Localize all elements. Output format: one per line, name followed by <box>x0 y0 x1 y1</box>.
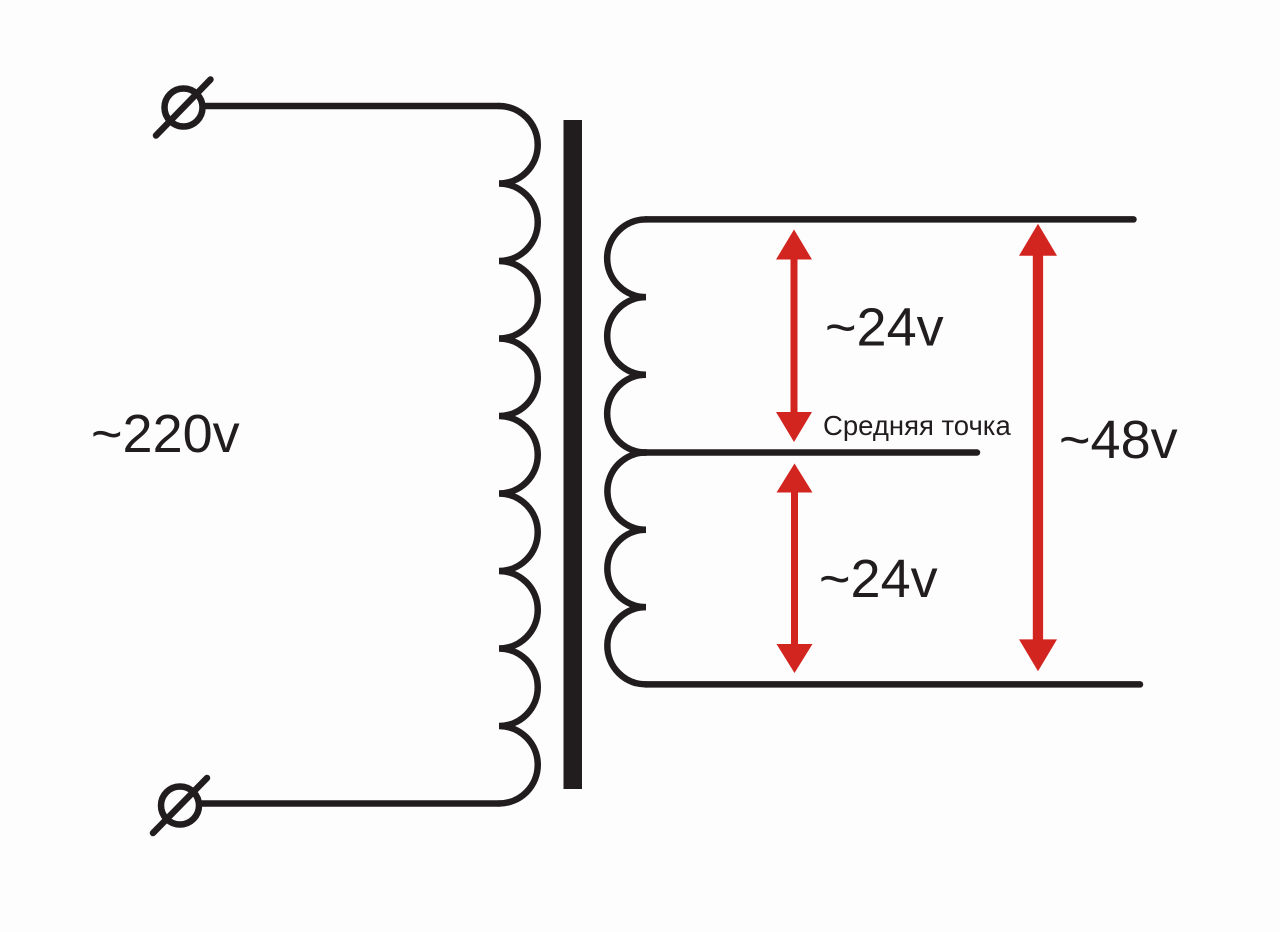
terminal X2 (primary bottom input) <box>153 778 207 833</box>
secondary winding L2 (upper half) <box>607 219 646 452</box>
dimension arrow ~24v lower <box>777 464 813 674</box>
wire primary top <box>205 103 499 110</box>
wire center tap <box>636 449 977 456</box>
svg-text:~24v: ~24v <box>819 549 938 609</box>
svg-text:~24v: ~24v <box>825 298 944 358</box>
secondary winding L3 (lower half) <box>607 453 646 685</box>
wire secondary bottom <box>646 681 1140 688</box>
wire primary bottom <box>202 800 499 807</box>
svg-text:~48v: ~48v <box>1059 410 1178 470</box>
primary winding L1 <box>499 106 538 804</box>
dimension arrow ~24v upper <box>776 230 812 443</box>
wire secondary top <box>646 216 1134 223</box>
transformer core <box>564 120 583 789</box>
terminal X1 (primary top input) <box>156 80 211 136</box>
dimension arrow ~48v <box>1019 224 1057 672</box>
svg-text:~220v: ~220v <box>91 404 240 464</box>
svg-text:Средняя точка: Средняя точка <box>823 410 1011 441</box>
